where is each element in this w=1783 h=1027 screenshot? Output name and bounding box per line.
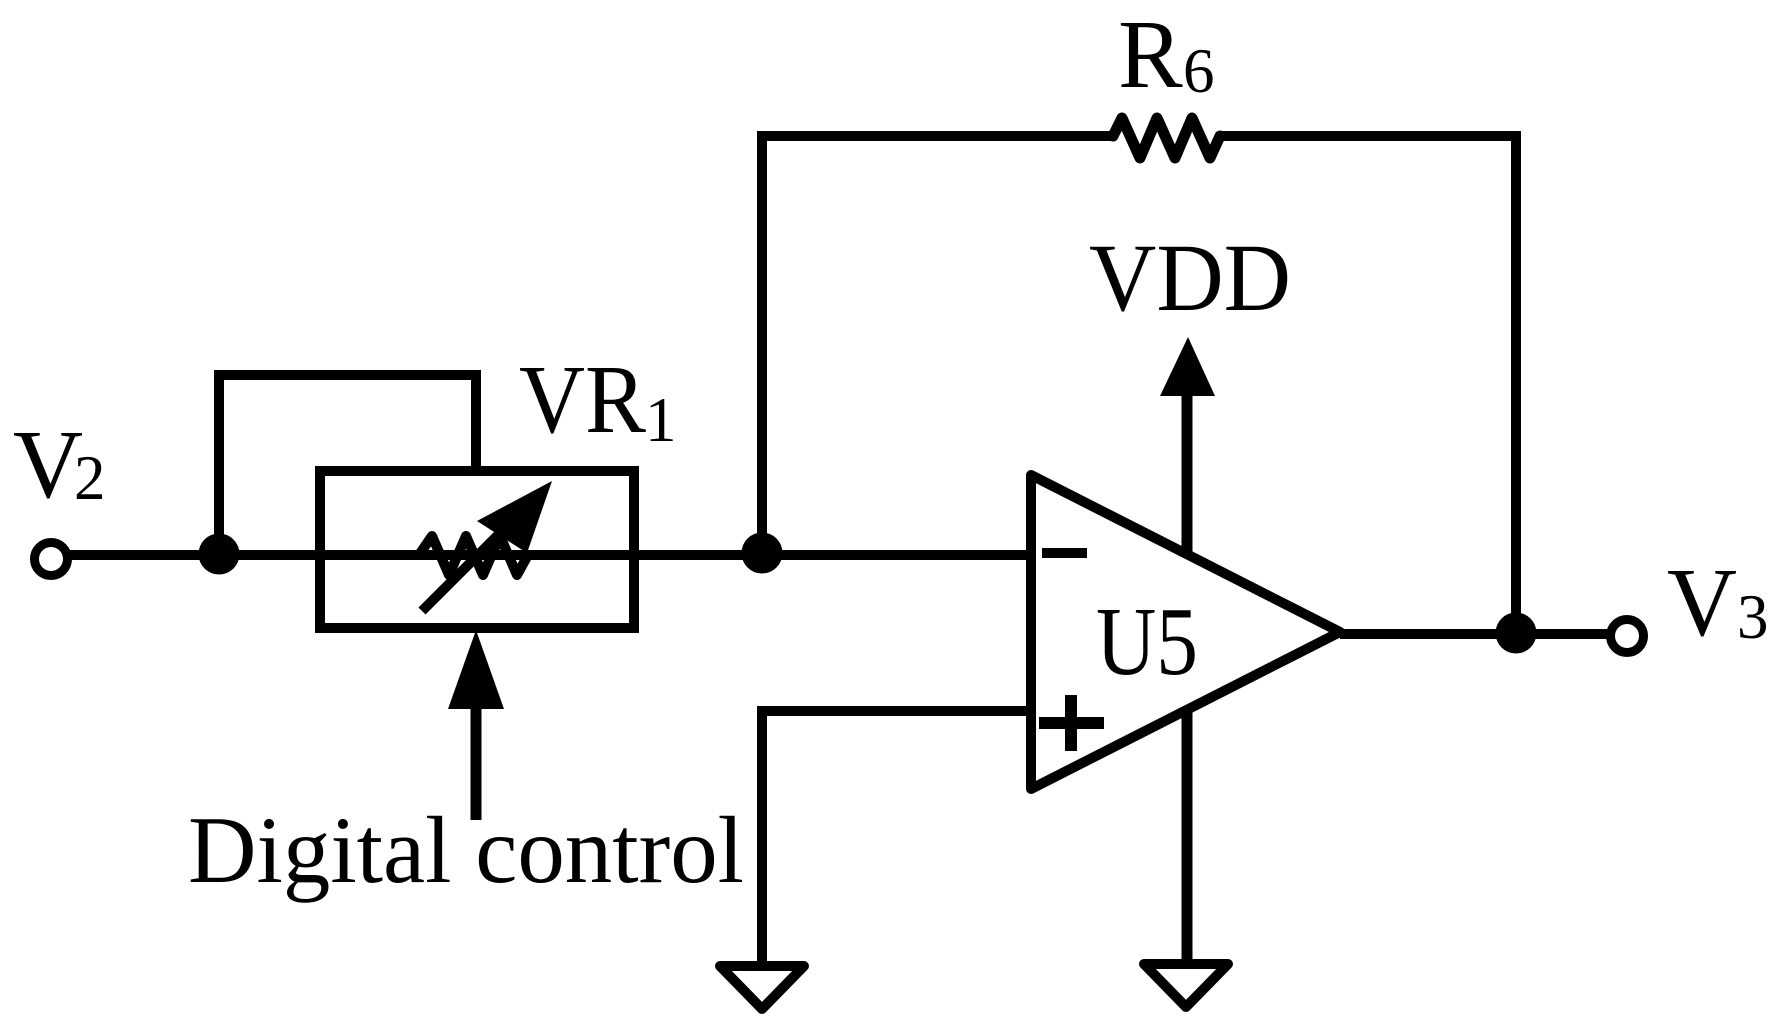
op-amp U5 body: [1031, 475, 1340, 789]
op-amp plus input sign: [1039, 717, 1104, 729]
wire: op-amp output: [1340, 629, 1608, 639]
VR1 resistor zigzag: [419, 536, 528, 575]
svg-text:Digital control: Digital control: [188, 797, 744, 903]
svg-text:R: R: [1118, 1, 1183, 108]
svg-text:U5: U5: [1096, 588, 1198, 695]
potentiometer VR1 box: [320, 471, 634, 628]
node B: inverting input junction dot: [742, 533, 783, 574]
digital control arrow stem: [471, 705, 482, 820]
ground: noninverting input return: [720, 966, 804, 1009]
node C: output junction dot: [1496, 613, 1537, 654]
svg-text:V: V: [1667, 549, 1737, 656]
VR1 wiper arrowhead: [477, 481, 552, 553]
digital control arrowhead: [448, 630, 504, 709]
wire: bypass loop over VR1 (node A up, across, down to box top): [219, 375, 476, 554]
wire: R6 top-left horizontal: [757, 131, 1114, 141]
wire + arrow: VDD supply stem (drawn under op-amp body): [1182, 390, 1193, 961]
svg-text:2: 2: [74, 443, 106, 513]
wire: feedback right leg down to output node: [1511, 131, 1521, 633]
wire: noninverting input to ground: [762, 711, 1031, 963]
node A: input junction dot: [199, 534, 240, 575]
op-amp minus input sign: [1042, 548, 1087, 558]
terminal V2: [35, 543, 68, 576]
svg-text:VDD: VDD: [1089, 224, 1291, 331]
wire: R6 top-right horizontal: [1219, 131, 1516, 141]
svg-text:3: 3: [1737, 582, 1769, 652]
svg-text:6: 6: [1183, 36, 1215, 106]
VR1 wiper arrow shaft: [422, 527, 506, 611]
ground: VDD return: [1144, 964, 1228, 1007]
svg-text:1: 1: [645, 385, 677, 455]
arrowhead: VDD: [1160, 337, 1215, 396]
wire: feedback left leg (node B up to R6 level): [757, 136, 767, 553]
wire: V2 terminal to op-amp inverting input: [70, 550, 1031, 560]
terminal V3: [1611, 620, 1644, 653]
svg-text:VR: VR: [519, 346, 646, 453]
resistor R6 zigzag: [1113, 118, 1220, 158]
svg-text:V: V: [13, 411, 83, 518]
